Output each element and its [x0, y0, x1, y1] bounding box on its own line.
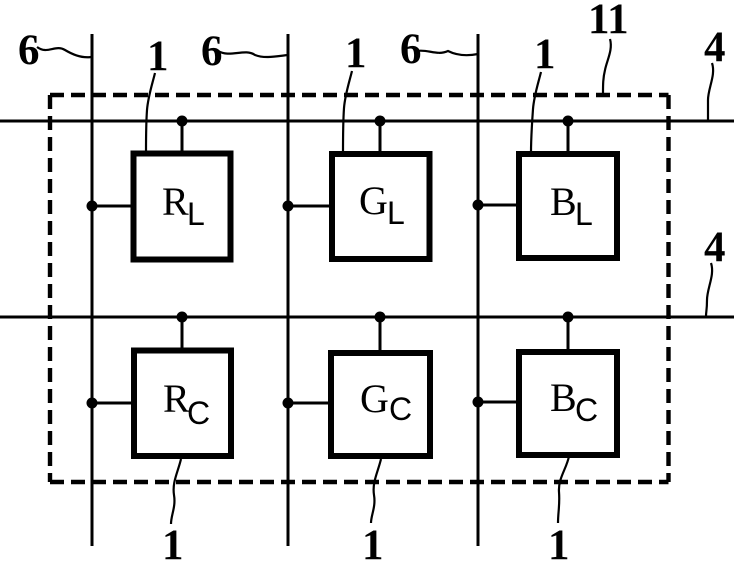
leader from 1 to R_L box [146, 73, 155, 152]
node: junction G_C on middle column line [283, 398, 294, 409]
wire: G_L left stub [288, 205, 332, 208]
leader from 11 to dashed boundary [603, 39, 611, 93]
node: junction B_L on top row line [563, 116, 574, 127]
leader from 6 to left column line [37, 47, 91, 57]
svg-text:L: L [575, 196, 593, 232]
leader from 1 to B_L box [531, 72, 541, 153]
svg-text:6: 6 [18, 27, 40, 74]
leader from B_C box to 1 [558, 456, 569, 523]
column data line 6 (left) [91, 34, 94, 546]
row select line 4 (top) [0, 120, 734, 123]
leader from R_C box to 1 [171, 459, 181, 524]
leader from 1 to G_L box [343, 71, 352, 153]
svg-text:C: C [575, 392, 598, 428]
svg-text:11: 11 [588, 0, 629, 43]
node: junction G_L on top row line [375, 116, 386, 127]
svg-text:L: L [387, 195, 405, 231]
wire: R_C left stub [92, 402, 134, 405]
svg-text:6: 6 [400, 26, 422, 73]
wire: R_C top stub [181, 317, 184, 350]
wire: B_C left stub [478, 401, 519, 404]
leader from 4 to top row line [708, 63, 713, 120]
pixel element box B_L [519, 154, 617, 258]
svg-text:1: 1 [147, 33, 169, 80]
svg-text:R: R [163, 376, 190, 421]
svg-text:1: 1 [548, 522, 570, 561]
column data line 6 (right) [477, 34, 480, 546]
wire: G_L top stub [379, 121, 382, 154]
node: junction B_C on bottom row line [563, 312, 574, 323]
svg-text:G: G [360, 376, 389, 421]
leader from 4 to bottom row line [706, 263, 712, 316]
svg-text:4: 4 [704, 24, 726, 71]
pixel element box G_C [331, 353, 430, 456]
svg-text:4: 4 [704, 224, 726, 271]
pixel element box R_C [134, 351, 231, 457]
node: junction G_L on middle column line [283, 201, 294, 212]
wire: B_L top stub [567, 121, 570, 154]
node: junction R_L on left column line [87, 201, 98, 212]
wire: R_L top stub [181, 121, 184, 153]
wire: B_C top stub [567, 317, 570, 352]
svg-text:R: R [162, 179, 189, 224]
svg-text:1: 1 [534, 31, 556, 78]
svg-text:L: L [187, 196, 205, 232]
node: junction R_C on bottom row line [177, 312, 188, 323]
column data line 6 (middle) [287, 34, 290, 546]
svg-text:1: 1 [162, 522, 184, 561]
leader from 6 to middle column line [218, 51, 288, 57]
svg-text:C: C [187, 395, 210, 431]
svg-text:B: B [550, 375, 577, 420]
node: junction R_C on left column line [87, 398, 98, 409]
node: junction R_L on top row line [177, 116, 188, 127]
svg-text:C: C [389, 391, 412, 427]
wire: B_L left stub [478, 204, 519, 207]
node: junction B_C on right column line [473, 397, 484, 408]
svg-text:G: G [359, 178, 388, 223]
pixel element box R_L [134, 154, 231, 260]
pixel element box B_C [519, 352, 617, 455]
wire: G_C top stub [379, 317, 382, 353]
svg-text:B: B [550, 179, 577, 224]
leader from 6 to right column line [417, 51, 478, 56]
leader from G_C box to 1 [371, 459, 381, 523]
wire: R_L left stub [92, 205, 134, 208]
node: junction G_C on bottom row line [375, 312, 386, 323]
row select line 4 (bottom) [0, 316, 734, 319]
svg-text:1: 1 [362, 522, 384, 561]
pixel element box G_L [332, 154, 430, 259]
wire: G_C left stub [288, 402, 331, 405]
node: junction B_L on right column line [473, 200, 484, 211]
pixel module dashed boundary 11 [50, 95, 669, 482]
svg-text:1: 1 [345, 30, 367, 77]
